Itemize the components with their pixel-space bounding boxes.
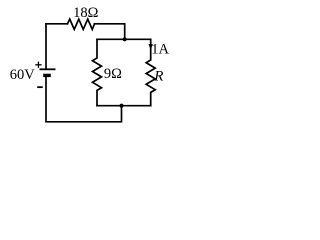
resistor R branch: [146, 39, 155, 105]
wire inner top rail: [97, 38, 151, 40]
resistor 9 ohm branch: [93, 39, 102, 105]
wire left vertical lower and bottom with stub to node B: [46, 77, 122, 122]
svg-text:1A: 1A: [151, 41, 169, 57]
wire top right with drop to node A: [95, 24, 125, 40]
svg-text:R: R: [153, 68, 163, 84]
wire left vertical upper: [45, 24, 47, 69]
resistor 18 ohm zigzag: [68, 19, 95, 29]
svg-text:9Ω: 9Ω: [104, 66, 122, 82]
svg-text:18Ω: 18Ω: [73, 5, 99, 21]
battery minus sign: [37, 86, 43, 88]
battery plus sign: [35, 62, 41, 68]
node B junction dot: [119, 104, 123, 108]
node A junction dot: [123, 37, 127, 41]
svg-text:60V: 60V: [10, 67, 36, 83]
wire inner bottom rail: [97, 105, 151, 107]
current arrow head 1A: [149, 44, 153, 50]
voltage source 60V battery plates: [40, 69, 56, 75]
wire top left horizontal: [46, 23, 68, 25]
